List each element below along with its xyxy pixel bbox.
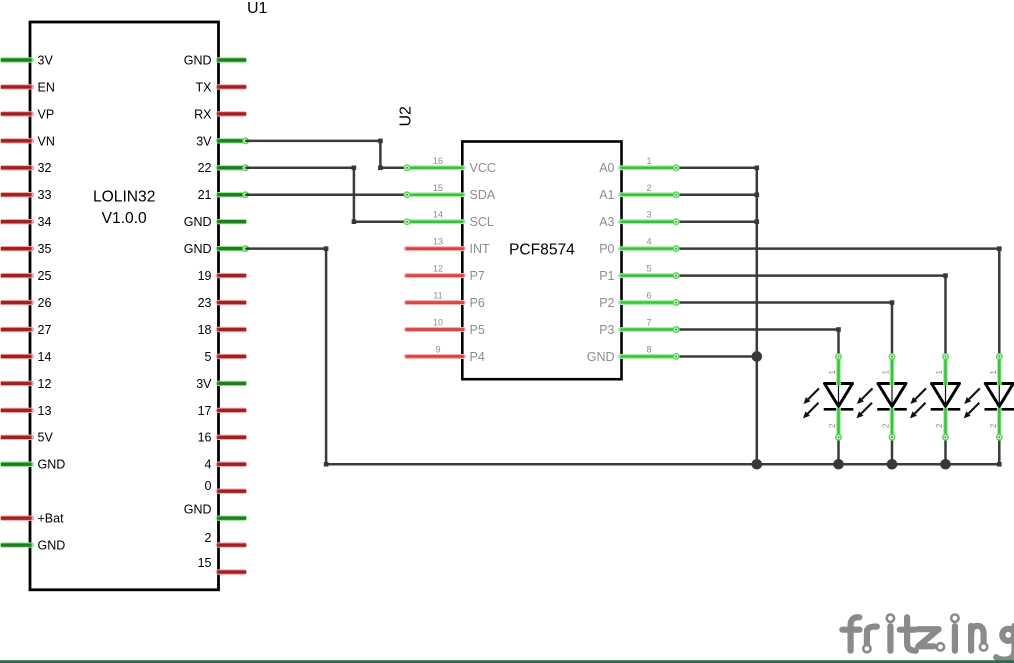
svg-text:25: 25 — [38, 269, 52, 283]
IC U1 LOLIN32 body — [30, 22, 219, 590]
U2 pin 7 P3 (right) — [599, 318, 679, 337]
U1 pin 18 (right row 10) — [198, 323, 248, 337]
U2 pin 15 SDA (left) — [404, 183, 496, 202]
svg-text:3V: 3V — [196, 377, 212, 391]
svg-text:RX: RX — [194, 107, 212, 121]
svg-text:12: 12 — [38, 377, 52, 391]
wire U2.A0 stub — [676, 167, 757, 170]
wire U2.P2 to LED2 anode — [676, 303, 892, 357]
svg-text:26: 26 — [38, 296, 52, 310]
svg-text:7: 7 — [646, 318, 651, 328]
U1 pin GND (left row 15) — [0, 458, 65, 472]
LED1 — [803, 354, 853, 465]
svg-text:2: 2 — [646, 183, 651, 193]
U2 pin 8 GND (right) — [587, 344, 679, 363]
svg-text:1: 1 — [646, 156, 651, 166]
wire junction dots — [752, 351, 951, 469]
U2 pin 14 SCL (left) — [404, 210, 494, 229]
U1 pin 17 (right row 13) — [198, 404, 248, 418]
svg-text:P5: P5 — [470, 323, 485, 337]
svg-text:LOLIN32: LOLIN32 — [93, 189, 155, 206]
U1 pin GND (right row 7) — [184, 242, 249, 256]
U1 pin 33 (left row 5) — [0, 188, 51, 202]
U1 pin EN (left row 1) — [0, 80, 55, 94]
svg-text:A3: A3 — [599, 215, 614, 229]
U1 pin VP (left row 2) — [0, 107, 54, 121]
wire U2.GND stub — [676, 355, 757, 358]
svg-text:P1: P1 — [599, 269, 614, 283]
U1 pin 0 (right row 16) — [205, 479, 248, 494]
U1 pin 15 (right row 19) — [198, 556, 248, 575]
svg-text:12: 12 — [433, 264, 443, 274]
svg-text:13: 13 — [38, 404, 52, 418]
svg-text:2: 2 — [205, 531, 212, 545]
svg-text:4: 4 — [205, 458, 212, 472]
U2 pin 2 A1 (right) — [599, 183, 679, 202]
wire bend points — [324, 139, 1002, 467]
wire net GND: U1.GND down and right along bottom bus — [246, 249, 1000, 465]
U1 pin GND (right row 17) — [184, 503, 247, 521]
U1 pin GND (right row 6) — [184, 215, 247, 229]
svg-text:5V: 5V — [38, 431, 54, 445]
svg-text:GND: GND — [184, 215, 212, 229]
U1 pin GND (left row 18) — [0, 539, 65, 553]
U2 pin 12 P7 (left) — [404, 264, 485, 283]
U1 pin 34 (left row 6) — [0, 215, 51, 229]
svg-text:GND: GND — [184, 242, 212, 256]
U2 reference designator (rotated) — [397, 106, 414, 127]
svg-text:2: 2 — [882, 423, 891, 428]
svg-text:14: 14 — [433, 210, 443, 220]
svg-text:14: 14 — [38, 350, 52, 364]
svg-text:17: 17 — [198, 404, 212, 418]
U1 pin RX (right row 2) — [194, 107, 247, 121]
IC U2 PCF8574 body — [462, 142, 621, 380]
svg-text:0: 0 — [205, 479, 212, 493]
svg-text:3: 3 — [646, 210, 651, 220]
U1 pin 5V (left row 14) — [0, 431, 53, 445]
U2 pin 6 P2 (right) — [599, 291, 679, 310]
svg-text:2: 2 — [828, 423, 837, 428]
U1 pin 3V (right row 12) — [196, 377, 247, 391]
svg-text:11: 11 — [433, 291, 442, 301]
U1 pin +Bat (left row 17) — [0, 512, 64, 526]
U1 pin 23 (right row 9) — [198, 296, 248, 310]
svg-text:21: 21 — [198, 188, 212, 202]
U1 pin TX (right row 1) — [196, 80, 248, 94]
svg-text:13: 13 — [433, 237, 443, 247]
svg-text:GND: GND — [587, 350, 615, 364]
U1 pin 16 (right row 14) — [198, 431, 248, 445]
svg-text:P6: P6 — [470, 296, 485, 310]
svg-text:+Bat: +Bat — [38, 512, 65, 526]
U1 pin 12 (left row 12) — [0, 377, 51, 391]
U1 pin 4 (right row 15) — [205, 458, 248, 472]
svg-text:32: 32 — [38, 161, 52, 175]
LED2 — [856, 354, 906, 465]
LED4 — [964, 354, 1014, 465]
svg-text:TX: TX — [196, 80, 213, 94]
svg-text:16: 16 — [433, 156, 443, 166]
svg-text:16: 16 — [198, 431, 212, 445]
wire U2.P0 to LED4 anode — [676, 249, 999, 357]
U2 label PCF8574 — [509, 242, 575, 259]
wire vertical A0/A1/A3/GND net — [756, 168, 759, 464]
svg-text:15: 15 — [433, 183, 443, 193]
fritzing logo — [842, 615, 1014, 660]
svg-text:PCF8574: PCF8574 — [509, 242, 575, 259]
U2 pin 10 P5 (left) — [404, 318, 485, 337]
svg-text:35: 35 — [38, 242, 52, 256]
U2 pin 16 VCC (left) — [404, 156, 496, 175]
svg-text:SDA: SDA — [470, 188, 496, 202]
U1 pin 26 (left row 9) — [0, 296, 51, 310]
U2 pin 5 P1 (right) — [599, 264, 679, 283]
svg-text:P4: P4 — [470, 350, 485, 364]
LED3 — [910, 354, 960, 465]
wire U2.A1 stub — [676, 194, 757, 197]
svg-text:5: 5 — [205, 350, 212, 364]
svg-text:5: 5 — [646, 264, 651, 274]
U1 pin 27 (left row 10) — [0, 323, 51, 337]
svg-text:1: 1 — [828, 370, 837, 375]
svg-text:8: 8 — [646, 344, 651, 354]
svg-text:A1: A1 — [599, 188, 614, 202]
svg-text:9: 9 — [435, 344, 440, 354]
svg-text:SCL: SCL — [470, 215, 494, 229]
svg-text:VN: VN — [38, 134, 55, 148]
svg-text:U2: U2 — [397, 106, 414, 127]
svg-text:4: 4 — [646, 237, 651, 247]
U2 pin 4 P0 (right) — [599, 237, 679, 256]
wire U2.A3 stub — [676, 220, 757, 223]
U2 pin 1 A0 (right) — [599, 156, 679, 175]
svg-text:VP: VP — [38, 107, 55, 121]
svg-text:33: 33 — [38, 188, 52, 202]
svg-text:INT: INT — [470, 242, 491, 256]
U1 pin 19 (right row 8) — [198, 269, 248, 283]
svg-text:2: 2 — [989, 423, 998, 428]
wire U2.P1 to LED3 anode — [676, 276, 945, 357]
svg-text:19: 19 — [198, 269, 212, 283]
svg-text:P2: P2 — [599, 296, 614, 310]
svg-text:A0: A0 — [599, 161, 614, 175]
svg-text:VCC: VCC — [470, 161, 496, 175]
svg-text:3V: 3V — [196, 134, 212, 148]
U1 pin 32 (left row 4) — [0, 161, 51, 175]
svg-text:34: 34 — [38, 215, 52, 229]
U2 pin 11 P6 (left) — [404, 291, 485, 310]
svg-text:GND: GND — [38, 458, 66, 472]
svg-text:23: 23 — [198, 296, 212, 310]
svg-text:GND: GND — [184, 503, 212, 517]
U1 pin 21 (right row 5) — [198, 188, 249, 202]
svg-text:P7: P7 — [470, 269, 485, 283]
svg-text:6: 6 — [646, 291, 651, 301]
svg-text:3V: 3V — [38, 53, 54, 67]
svg-text:P3: P3 — [599, 323, 614, 337]
svg-text:15: 15 — [198, 556, 212, 570]
svg-text:V1.0.0: V1.0.0 — [102, 210, 147, 227]
U2 pin 3 A3 (right) — [599, 210, 679, 229]
svg-text:EN: EN — [38, 80, 55, 94]
svg-text:27: 27 — [38, 323, 52, 337]
U1 pin 5 (right row 11) — [205, 350, 248, 364]
U1 pin 14 (left row 11) — [0, 350, 51, 364]
svg-text:10: 10 — [433, 318, 443, 328]
U1 pin GND (right row 0) — [184, 53, 247, 67]
svg-text:22: 22 — [198, 161, 212, 175]
U1 pin 35 (left row 7) — [0, 242, 51, 256]
svg-text:1: 1 — [989, 370, 998, 375]
wire net SCL: U1.22 to U2.SCL — [246, 168, 407, 222]
U1 pin 25 (left row 8) — [0, 269, 51, 283]
U1 pin 2 (right row 18) — [205, 531, 248, 548]
U1 pin 3V (left row 0) — [0, 53, 53, 67]
svg-text:P0: P0 — [599, 242, 614, 256]
U1 pin 13 (left row 13) — [0, 404, 51, 418]
svg-text:GND: GND — [38, 539, 66, 553]
svg-text:2: 2 — [935, 423, 944, 428]
svg-text:1: 1 — [935, 370, 944, 375]
svg-text:18: 18 — [198, 323, 212, 337]
wire U2.P3 to LED1 anode — [676, 330, 838, 357]
U1 pin 3V (right row 3) — [196, 134, 248, 148]
svg-text:U1: U1 — [247, 0, 268, 17]
U1 pin 22 (right row 4) — [198, 161, 249, 175]
U1 reference designator — [247, 0, 268, 17]
bottom green border line — [0, 660, 1014, 663]
U2 pin 13 INT (left) — [404, 237, 490, 256]
wire net SDA: U1.21 to U2.SDA — [246, 194, 407, 197]
U1 pin VN (left row 3) — [0, 134, 55, 148]
wire net 3V: U1.3V to U2.VCC — [246, 141, 407, 168]
U1 label LOLIN32 V1.0.0 — [93, 189, 155, 228]
svg-text:1: 1 — [882, 370, 891, 375]
svg-text:GND: GND — [184, 53, 212, 67]
U2 pin 9 P4 (left) — [404, 344, 485, 363]
